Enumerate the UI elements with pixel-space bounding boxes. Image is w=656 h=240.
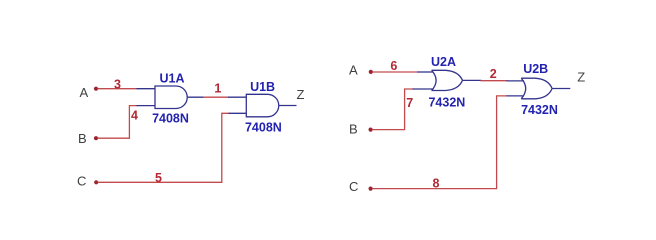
svg-text:5: 5 (155, 171, 162, 185)
AND gate U1B body (246, 94, 278, 117)
svg-text:U1A: U1A (159, 71, 184, 85)
OR gate U2A body (432, 70, 463, 90)
svg-text:B: B (349, 121, 358, 136)
node C right terminal dot (369, 187, 373, 191)
svg-text:7: 7 (406, 96, 413, 110)
svg-text:Z: Z (577, 69, 585, 84)
wire A to U2A pin 6 (372, 71, 418, 73)
node A terminal dot (94, 87, 98, 91)
svg-text:B: B (78, 131, 87, 146)
pin stub U2B output to Z (552, 88, 570, 90)
pin stub U1B input pin 1 side (228, 96, 246, 98)
pin stub U2A pin 6 (418, 71, 434, 73)
pin stub U1A pin 4 (137, 105, 156, 107)
wire C to U1B pin 5 (98, 113, 230, 182)
svg-text:3: 3 (114, 77, 121, 91)
svg-text:8: 8 (433, 176, 440, 190)
svg-text:A: A (349, 63, 358, 78)
pin stub U1B pin 5 (229, 112, 247, 114)
node B terminal dot (94, 136, 98, 140)
svg-text:Z: Z (297, 87, 305, 102)
svg-text:A: A (80, 85, 89, 100)
svg-text:7408N: 7408N (245, 120, 282, 134)
svg-text:U1B: U1B (250, 80, 275, 94)
wire A to U1A pin 3 (98, 88, 138, 90)
svg-text:6: 6 (390, 59, 397, 73)
AND gate U1A body (155, 86, 187, 109)
node B right terminal dot (369, 128, 373, 132)
pin stub U1A pin 3 (137, 88, 156, 90)
OR gate U2B body (521, 78, 552, 99)
svg-text:U2A: U2A (431, 55, 456, 69)
pin stub U1A output pin 1 (187, 96, 204, 98)
svg-text:2: 2 (490, 67, 497, 81)
svg-text:7408N: 7408N (152, 111, 189, 125)
wire C to U2B pin 8 (372, 96, 508, 189)
svg-text:7432N: 7432N (428, 96, 465, 110)
pin stub U2B pin 8 (507, 95, 525, 97)
svg-text:4: 4 (131, 109, 138, 123)
svg-text:C: C (77, 173, 86, 188)
wire U2A out to U2B in (481, 80, 508, 82)
svg-text:U2B: U2B (523, 62, 548, 76)
pin stub U2A output pin 2 (463, 79, 482, 81)
pin stub U2A pin 7 (413, 88, 434, 90)
node A right terminal dot (369, 70, 373, 74)
svg-text:1: 1 (214, 82, 221, 96)
pin stub U1B output to Z (279, 105, 297, 107)
svg-text:7432N: 7432N (521, 103, 558, 117)
node C terminal dot (94, 180, 98, 184)
wire B to U2A pin 7 (372, 89, 414, 130)
pin stub U2B input pin 2 side (507, 80, 525, 82)
svg-text:C: C (349, 179, 358, 194)
wire B to U1A pin 4 (98, 106, 138, 139)
wire U1A out to U1B in (203, 96, 229, 98)
